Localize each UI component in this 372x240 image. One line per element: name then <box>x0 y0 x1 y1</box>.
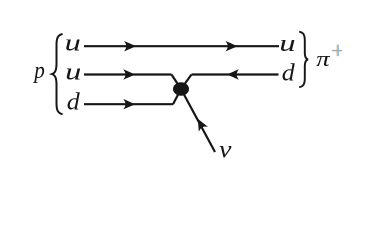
svg-text:π: π <box>316 47 330 72</box>
svg-text:d: d <box>282 60 295 86</box>
svg-text:p: p <box>32 57 44 84</box>
svg-text:ν: ν <box>219 135 232 163</box>
svg-text:u: u <box>279 31 295 57</box>
svg-text:d: d <box>67 89 80 115</box>
svg-text:u: u <box>65 59 81 85</box>
svg-text:u: u <box>65 30 81 56</box>
